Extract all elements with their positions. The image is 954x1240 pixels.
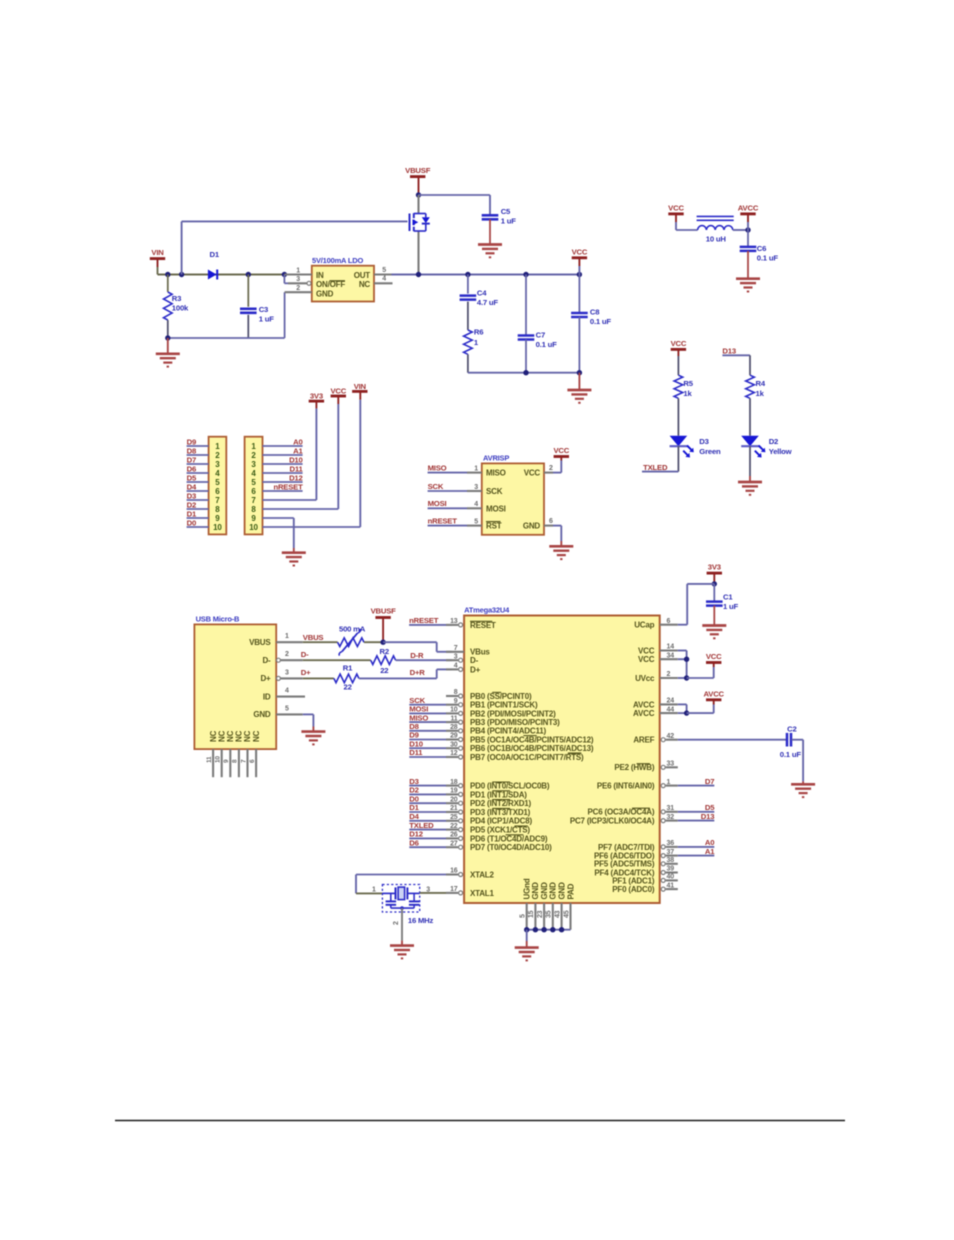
svg-text:PE6 (INT6/AIN0): PE6 (INT6/AIN0) (597, 782, 655, 791)
svg-text:26: 26 (450, 832, 458, 839)
svg-text:ATmega32U4: ATmega32U4 (464, 605, 510, 614)
svg-text:16 MHz: 16 MHz (408, 916, 434, 925)
svg-text:PC7 (ICP3/CLK0/OC4A): PC7 (ICP3/CLK0/OC4A) (570, 817, 655, 826)
svg-text:Yellow: Yellow (769, 447, 792, 456)
pin 7 VBus (446, 645, 490, 657)
pin 27 PD7 (446, 840, 552, 852)
pin 40 PF1 (612, 874, 678, 886)
svg-text:8: 8 (232, 759, 239, 763)
ground below R3 (156, 338, 180, 367)
wire J1 pin 2 D8 (187, 446, 209, 455)
power flag VIN (header) (352, 382, 367, 391)
resistor R1 22 (334, 664, 359, 692)
svg-text:GND: GND (316, 290, 334, 299)
inductor L1 10 uH (697, 216, 734, 243)
svg-text:D12: D12 (289, 473, 303, 482)
svg-text:0.1 uF: 0.1 uF (536, 340, 558, 349)
svg-text:PB2 (PDI/MOSI/PCINT2): PB2 (PDI/MOSI/PCINT2) (470, 709, 556, 718)
node 3V3 junction (712, 581, 717, 586)
pin 1 VBUS (276, 633, 303, 642)
svg-text:VBUS: VBUS (249, 638, 271, 647)
wire J2 pin 3 D10 (263, 455, 303, 464)
svg-text:GND: GND (253, 710, 271, 719)
wire XTAL1 net (420, 892, 446, 894)
pin 2 GND (285, 285, 312, 292)
svg-text:D3: D3 (187, 491, 196, 500)
power flag VCC (AVRISP) (553, 446, 569, 457)
svg-text:3V3: 3V3 (310, 392, 323, 401)
wire net D7 (678, 777, 715, 786)
svg-text:SCK: SCK (428, 482, 444, 491)
IC U1 ATmega32U4 (464, 605, 660, 903)
svg-text:C3: C3 (259, 305, 268, 314)
svg-text:AVCC: AVCC (633, 700, 655, 709)
svg-text:10: 10 (213, 523, 222, 532)
svg-text:10 uH: 10 uH (706, 235, 727, 244)
svg-text:100k: 100k (172, 304, 189, 313)
svg-text:SCK: SCK (486, 487, 503, 496)
svg-text:1: 1 (667, 779, 671, 786)
svg-text:1k: 1k (756, 389, 765, 398)
wire J1 pin 10 D0 (187, 518, 209, 527)
svg-text:1: 1 (372, 887, 376, 894)
svg-text:9: 9 (454, 698, 458, 705)
svg-text:D5: D5 (705, 803, 715, 812)
wire net MOSI (409, 705, 446, 714)
ground below J2 (282, 553, 306, 566)
node gate riser junction (179, 272, 184, 277)
svg-text:PD7 (T0/OC4D/ADC10): PD7 (T0/OC4D/ADC10) (470, 843, 552, 852)
svg-text:GND: GND (540, 882, 549, 900)
svg-text:D3: D3 (409, 777, 418, 786)
power flag AVCC (mcu) (703, 689, 724, 699)
pin 12 PB7 (446, 750, 584, 762)
pin 4 D+ (446, 663, 481, 675)
pin 30 PB6 (446, 741, 594, 753)
power flag 3V3 (309, 392, 324, 401)
pin 39 PF4 (594, 866, 677, 878)
svg-text:SCK: SCK (409, 696, 425, 705)
svg-text:1: 1 (474, 465, 478, 472)
svg-text:5: 5 (215, 478, 220, 487)
wire ground bus (524, 927, 571, 932)
svg-text:Green: Green (699, 447, 721, 456)
svg-text:3: 3 (454, 653, 458, 660)
svg-text:PE2 (HWB): PE2 (HWB) (614, 763, 655, 772)
wire fuse to junction (364, 641, 383, 643)
wire J2 pin 10 to VIN (263, 391, 361, 527)
svg-text:A0: A0 (293, 437, 302, 446)
svg-text:PAD: PAD (566, 883, 575, 899)
pin 28 PB4 (446, 724, 547, 736)
power flag VCC (filter) (668, 204, 697, 231)
svg-text:22: 22 (380, 666, 388, 675)
LED D3 Green (670, 436, 721, 458)
svg-text:28: 28 (450, 724, 458, 731)
svg-text:25: 25 (450, 814, 458, 821)
svg-text:NC: NC (359, 280, 371, 289)
capacitor C7 (518, 272, 557, 373)
wire net D10 (409, 739, 446, 748)
pin 5 OUT (374, 267, 392, 275)
svg-text:A0: A0 (705, 838, 714, 847)
svg-text:D+R: D+R (410, 668, 426, 677)
svg-text:6: 6 (249, 759, 256, 763)
svg-text:1 uF: 1 uF (501, 216, 517, 225)
wire net D9 (409, 731, 446, 740)
capacitor C5 (482, 207, 517, 245)
svg-text:VCC: VCC (553, 446, 569, 455)
wire net D3 (409, 777, 446, 786)
svg-text:PB4 (PCINT4/ADC11): PB4 (PCINT4/ADC11) (470, 727, 547, 736)
svg-text:UCap: UCap (634, 621, 654, 630)
pin 5 UGnd (520, 878, 532, 929)
svg-text:27: 27 (450, 840, 458, 847)
footer rule (115, 1120, 845, 1122)
svg-text:nRESET: nRESET (273, 482, 303, 491)
connector J1 digital header (209, 437, 227, 535)
pin 34 VCC (638, 652, 678, 664)
svg-text:D+: D+ (470, 665, 481, 674)
svg-text:GND: GND (549, 882, 558, 900)
svg-text:7: 7 (240, 759, 247, 763)
svg-text:2: 2 (667, 671, 671, 678)
ground below C6 (736, 279, 760, 292)
svg-text:D-R: D-R (410, 651, 424, 660)
capacitor C8 (571, 272, 611, 373)
svg-text:1 uF: 1 uF (259, 315, 275, 324)
svg-text:5V/100mA LDO: 5V/100mA LDO (312, 256, 363, 265)
svg-text:PD0 (INT0/SCL/OC0B): PD0 (INT0/SCL/OC0B) (470, 782, 550, 791)
wire D+ net (303, 677, 334, 679)
svg-text:USB Micro-B: USB Micro-B (196, 614, 240, 623)
node VBUS junction (380, 640, 385, 645)
wire AVRISP SCK (428, 482, 482, 491)
pin 1 PE6 (597, 779, 678, 791)
transistor Q1 PMOS (410, 195, 430, 275)
wire J2 pin 1 A0 (263, 437, 303, 446)
svg-text:PF5 (ADC5/TMS): PF5 (ADC5/TMS) (594, 860, 655, 869)
wire J2 pin 8 to VCC (263, 396, 339, 509)
svg-text:C7: C7 (536, 331, 545, 340)
wire D-R net (396, 651, 452, 660)
wire net D13 (678, 812, 715, 821)
svg-text:2: 2 (285, 651, 289, 658)
wire D- net (303, 659, 371, 661)
wire J1 pin 5 D5 (187, 473, 209, 482)
svg-text:D+: D+ (260, 674, 271, 683)
svg-text:1k: 1k (683, 389, 692, 398)
svg-text:VCC: VCC (572, 248, 588, 257)
pin 32 PC7 (570, 814, 678, 826)
svg-text:3: 3 (474, 484, 478, 491)
svg-text:PB6 (OC1B/OC4B/PCINT6/ADC13): PB6 (OC1B/OC4B/PCINT6/ADC13) (470, 744, 594, 753)
svg-text:VCC: VCC (638, 655, 655, 664)
svg-text:20: 20 (450, 796, 458, 803)
ground below USB (301, 732, 325, 745)
svg-text:VBUS: VBUS (303, 633, 324, 642)
node VBUSF junction (416, 192, 421, 197)
svg-text:PD5 (XCK1/CTS): PD5 (XCK1/CTS) (470, 826, 530, 835)
wire gate riser to MOSFET (182, 221, 408, 274)
wire AVRISP MOSI (428, 499, 482, 508)
wire to AVCC (733, 227, 751, 232)
pin 29 PB5 (446, 733, 594, 745)
pin 31 PC6 (588, 805, 678, 817)
svg-text:D9: D9 (409, 731, 418, 740)
wire ON/OFF tie (284, 275, 288, 284)
regulator U2 5V/100mA LDO (312, 256, 374, 302)
svg-text:34: 34 (667, 652, 675, 659)
svg-text:D8: D8 (409, 722, 419, 731)
svg-text:D4: D4 (187, 482, 197, 491)
capacitor C1 (706, 584, 739, 626)
svg-text:R6: R6 (474, 328, 483, 337)
pin 13 RESET (446, 618, 496, 630)
svg-text:VIN: VIN (354, 382, 367, 391)
power flag VCC (mcu) (706, 652, 722, 663)
svg-text:PF0 (ADC0): PF0 (ADC0) (612, 885, 655, 894)
svg-text:VCC: VCC (706, 652, 722, 661)
svg-text:18: 18 (450, 779, 458, 786)
svg-text:2: 2 (296, 285, 300, 292)
pin 38 PF5 (594, 857, 678, 869)
svg-text:13: 13 (450, 618, 458, 625)
svg-text:GND: GND (523, 522, 541, 531)
svg-text:7: 7 (454, 645, 458, 652)
svg-text:1 uF: 1 uF (723, 602, 739, 611)
svg-text:9: 9 (215, 514, 220, 523)
diode D1 (208, 250, 220, 280)
svg-text:RST: RST (486, 522, 502, 531)
svg-text:VCC: VCC (668, 204, 684, 213)
svg-text:3: 3 (285, 669, 289, 676)
svg-text:PB1 (PCINT1/SCK): PB1 (PCINT1/SCK) (470, 701, 538, 710)
pin 10 PB2 (446, 707, 556, 719)
svg-text:PC6 (OC3A/OC4A): PC6 (OC3A/OC4A) (588, 808, 655, 817)
node LDO input junction (282, 272, 287, 277)
wire XTAL2 net (356, 875, 446, 894)
svg-text:9: 9 (223, 759, 230, 763)
svg-text:MISO: MISO (486, 469, 506, 478)
svg-text:VCC: VCC (330, 387, 346, 396)
wire VIN rail (158, 274, 285, 276)
svg-text:4: 4 (285, 688, 289, 695)
svg-text:40: 40 (667, 874, 675, 881)
pin 7 NC stub (240, 749, 247, 777)
svg-text:PF7 (ADC7/TDI): PF7 (ADC7/TDI) (598, 843, 655, 852)
connector AVRISP (482, 454, 544, 535)
svg-text:A1: A1 (705, 847, 715, 856)
pin 6 NC stub (249, 749, 256, 777)
svg-text:10: 10 (450, 707, 458, 714)
pin 23 GND (537, 882, 549, 930)
wire net D8 (409, 722, 446, 731)
net label VBUS (303, 633, 338, 642)
wire J1 pin 1 D9 (187, 437, 209, 446)
wire J1 pin 8 D2 (187, 500, 209, 509)
svg-text:1: 1 (296, 267, 300, 274)
pin 11 PB3 (446, 715, 560, 727)
svg-text:6: 6 (549, 518, 553, 525)
wire net MISO (409, 713, 446, 722)
wire R5 to D3 (677, 398, 679, 435)
svg-text:C8: C8 (590, 308, 600, 317)
svg-text:D6: D6 (409, 838, 418, 847)
connector J3 USB Micro-B (194, 614, 276, 749)
capacitor C3 (240, 272, 274, 338)
svg-text:AVCC: AVCC (633, 709, 655, 718)
wire J2 pin 7 to 3V3 (263, 401, 317, 500)
svg-text:PB0 (SS/PCINT0): PB0 (SS/PCINT0) (470, 692, 532, 701)
svg-text:0.1 uF: 0.1 uF (780, 750, 802, 759)
svg-text:3: 3 (296, 276, 300, 283)
svg-text:36: 36 (667, 840, 675, 847)
wire J2 pin 6 nRESET (263, 482, 304, 491)
wire bottom rail (468, 370, 582, 375)
svg-text:AVRISP: AVRISP (483, 454, 509, 463)
svg-text:AVCC: AVCC (703, 689, 724, 698)
pin 6 UCap (634, 618, 678, 630)
svg-text:8: 8 (454, 689, 458, 696)
svg-text:4: 4 (215, 469, 220, 478)
svg-text:3: 3 (215, 460, 220, 469)
wire J1 pin 4 D6 (187, 464, 209, 473)
svg-text:23: 23 (537, 910, 544, 918)
wire net TXLED (409, 821, 446, 830)
svg-text:5: 5 (285, 705, 289, 712)
svg-text:D13: D13 (701, 812, 715, 821)
svg-text:29: 29 (450, 733, 458, 740)
wire net D12 (409, 830, 446, 839)
resistor R4 (746, 355, 766, 398)
power flag VIN (150, 248, 165, 275)
power flag VBUSF (405, 166, 431, 195)
svg-text:D12: D12 (409, 830, 423, 839)
pin 43 GND (554, 882, 566, 930)
svg-text:VCC: VCC (671, 339, 687, 348)
pin 4 NC (374, 276, 393, 284)
ground below C2 (791, 784, 815, 797)
svg-text:3V3: 3V3 (708, 563, 721, 572)
svg-text:D-: D- (470, 656, 479, 665)
ground below C1 (702, 626, 726, 639)
svg-text:UVcc: UVcc (635, 674, 655, 683)
svg-text:A1: A1 (293, 446, 303, 455)
svg-text:4: 4 (474, 501, 478, 508)
svg-text:4: 4 (382, 276, 386, 283)
pin 22 PD5 (446, 823, 530, 835)
wire VCC rail (392, 274, 580, 276)
capacitor C4 (460, 272, 499, 307)
svg-text:MOSI: MOSI (428, 499, 447, 508)
pin 36 PF7 (598, 840, 678, 852)
svg-text:PD3 (INT3/TXD1): PD3 (INT3/TXD1) (470, 808, 531, 817)
wire net A0 (678, 838, 715, 847)
pin 37 PF6 (594, 849, 678, 861)
svg-text:VCC: VCC (638, 646, 655, 655)
svg-text:D11: D11 (290, 464, 304, 473)
ground below MCU (515, 930, 539, 961)
pin 25 PD4 (446, 814, 532, 826)
svg-text:C4: C4 (477, 289, 487, 298)
net label D- (301, 650, 309, 659)
pin 2 VCC AVRISP (544, 457, 561, 473)
svg-text:IN: IN (316, 271, 324, 280)
svg-text:35: 35 (546, 910, 553, 918)
capacitor C2 AREF (678, 725, 803, 785)
pin 19 PD1 (446, 788, 527, 800)
svg-text:VBUSF: VBUSF (405, 166, 431, 175)
pin 2 D- (276, 651, 302, 662)
svg-text:R2: R2 (380, 647, 389, 656)
pin 16 XTAL2 (446, 868, 494, 880)
pin 41 PF0 (612, 882, 678, 894)
wire R4 to D2 (749, 398, 751, 435)
power flag VCC main (572, 248, 588, 275)
svg-text:UGnd: UGnd (523, 878, 532, 899)
svg-text:D10: D10 (409, 739, 423, 748)
wire VCC pins tie (678, 651, 714, 681)
pin 8 PB0 (446, 689, 532, 701)
svg-text:5: 5 (474, 518, 478, 525)
svg-text:PD4 (ICP1/ADC8): PD4 (ICP1/ADC8) (470, 817, 532, 826)
wire J1 pin 9 D1 (187, 509, 209, 518)
wire net D5 (678, 803, 715, 812)
power flag AVCC (filter) (738, 204, 759, 231)
svg-text:33: 33 (667, 761, 675, 768)
svg-text:5: 5 (382, 267, 386, 274)
svg-text:C6: C6 (757, 244, 766, 253)
svg-text:0.1 uF: 0.1 uF (590, 317, 612, 326)
svg-text:NC: NC (252, 730, 261, 742)
svg-text:17: 17 (450, 886, 458, 893)
svg-text:R4: R4 (756, 379, 766, 388)
wire D3 to TXLED (642, 446, 678, 471)
pin 9 NC stub (223, 749, 230, 777)
pin 3 D+ (276, 669, 302, 680)
svg-text:4: 4 (454, 663, 458, 670)
svg-text:1: 1 (285, 633, 289, 640)
svg-text:D7: D7 (705, 777, 714, 786)
svg-text:AREF: AREF (633, 736, 654, 745)
svg-text:D1: D1 (187, 509, 197, 518)
connector J2 mixed header (245, 437, 263, 535)
svg-text:nRESET: nRESET (428, 516, 458, 525)
pin 8 NC stub (232, 749, 239, 777)
wire net SCK (409, 696, 446, 705)
pin 17 XTAL1 (446, 886, 494, 898)
svg-text:19: 19 (450, 788, 458, 795)
svg-text:42: 42 (667, 733, 675, 740)
svg-text:15: 15 (528, 910, 535, 918)
svg-text:D-: D- (301, 650, 309, 659)
svg-text:PD6 (T1/OC4D/ADC9): PD6 (T1/OC4D/ADC9) (470, 834, 548, 843)
svg-text:D10: D10 (289, 455, 303, 464)
svg-text:39: 39 (667, 866, 675, 873)
svg-text:2: 2 (215, 451, 220, 460)
svg-text:32: 32 (667, 814, 675, 821)
svg-text:11: 11 (206, 756, 213, 763)
svg-text:C2: C2 (787, 725, 796, 734)
svg-text:5: 5 (520, 914, 527, 918)
svg-text:D1: D1 (409, 803, 419, 812)
wire J2 pin 2 A1 (263, 446, 304, 455)
svg-text:ID: ID (263, 692, 271, 701)
node VIN-R3 junction (165, 272, 170, 277)
pin 44 AVCC (633, 706, 678, 718)
pin 15 GND (528, 882, 540, 930)
